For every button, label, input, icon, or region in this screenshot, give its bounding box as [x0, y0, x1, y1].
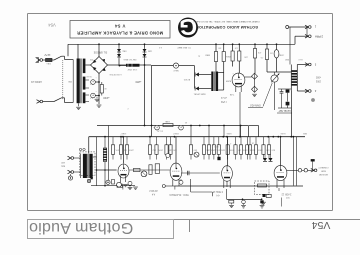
wire jack top	[254, 58, 256, 73]
node anode bus x278.3	[277, 136, 279, 138]
resistor R37	[255, 137, 257, 145]
ground chassis filter	[97, 104, 102, 106]
wire jack link	[254, 79, 256, 87]
switch S1 link	[62, 60, 64, 100]
ground circle input	[70, 174, 72, 176]
wire input lo	[74, 171, 81, 173]
ground glyph near +150	[96, 97, 98, 99]
node bus x99	[98, 43, 100, 45]
svg-text:2 AOK 12: 2 AOK 12	[281, 193, 292, 196]
svg-text:SCR: SCR	[214, 145, 219, 147]
terminal J2 line out	[305, 34, 308, 36]
wire bridge top to bus	[98, 44, 100, 56]
node anode bus x150	[149, 136, 151, 138]
svg-text:LINE: LINE	[165, 120, 170, 122]
svg-text:+: +	[156, 126, 158, 130]
node output tap	[286, 26, 289, 29]
svg-text:BY100: BY100	[183, 78, 190, 80]
wire output tap line	[289, 26, 308, 28]
svg-text:220K: 220K	[210, 148, 215, 150]
wire cathode ground rail	[227, 199, 262, 201]
ground circle under transformer	[87, 179, 90, 182]
wire input sec top	[93, 156, 97, 158]
svg-text:SIL. BRIDGE: SIL. BRIDGE	[93, 51, 107, 53]
node grid feed	[96, 169, 98, 171]
svg-text:220K: 220K	[128, 148, 133, 150]
title box	[70, 21, 170, 39]
svg-text:GAIN ADJ: GAIN ADJ	[250, 104, 260, 107]
wire grid feed V1	[97, 169, 117, 171]
svg-text:A3904 24: A3904 24	[31, 80, 42, 83]
resistor R38	[263, 137, 265, 145]
node anode bus x280.5	[280, 136, 282, 138]
svg-text:TRIO · PLAYBACK: TRIO · PLAYBACK	[169, 193, 189, 196]
wire T3 out top	[297, 64, 308, 66]
wire B+ top bus	[68, 43, 295, 45]
svg-text:PRI: PRI	[68, 80, 72, 82]
node anode bus x174.5	[174, 136, 176, 138]
node anode bus x121	[120, 136, 122, 138]
node bus x223.7	[223, 43, 225, 45]
wire V4 anode	[280, 137, 282, 166]
capacitor C8 blob	[263, 194, 266, 197]
wire diode join	[194, 66, 196, 89]
wire screen rail	[97, 125, 248, 127]
wire vert x296	[296, 137, 298, 186]
svg-text:RED: RED	[284, 58, 289, 60]
node screen rail x199.8	[199, 125, 201, 127]
wire T3 top tap riser	[289, 27, 291, 65]
capacitor C5	[187, 171, 189, 175]
wire vert x151	[151, 66, 153, 137]
svg-text:GROUND: GROUND	[318, 173, 328, 175]
svg-text:4x: 4x	[198, 54, 200, 56]
wire lamp row left	[151, 65, 173, 67]
resistor R45	[266, 194, 271, 197]
resistor R20	[112, 137, 114, 145]
wire bus stub left	[67, 44, 69, 56]
wire mains N	[43, 101, 55, 103]
svg-text:V 54: V 54	[114, 23, 125, 28]
resistor R26	[170, 137, 172, 145]
svg-text:LOW RIPPLE: LOW RIPPLE	[109, 73, 122, 75]
ground chassis rail end	[133, 186, 138, 188]
ground chassis output stage	[261, 201, 266, 203]
wire C15 drop	[312, 162, 314, 171]
terminal input hi	[68, 156, 71, 158]
wire bridge right	[108, 64, 127, 66]
svg-text:RES: RES	[225, 55, 230, 57]
resistor R35	[246, 137, 248, 145]
node anode bus x293.3	[292, 136, 294, 138]
svg-text:50+50: 50+50	[86, 75, 91, 77]
transformer T4 input primary	[80, 154, 82, 179]
node screen rail x224	[223, 125, 225, 127]
resistor R44 bias	[229, 200, 234, 203]
resistor R8	[265, 49, 268, 60]
sheet border frame left	[27, 14, 29, 211]
wire R2 to node	[140, 64, 152, 66]
resistor R34	[240, 137, 242, 145]
tube V3 pins	[223, 180, 225, 188]
lamp NE-2	[173, 63, 178, 68]
title strip divider	[189, 220, 191, 233]
svg-text:NE-2: NE-2	[173, 69, 179, 71]
switch S1b	[54, 98, 62, 102]
svg-text:0 HOE 18: 0 HOE 18	[212, 190, 223, 192]
svg-text:NFB: NFB	[302, 132, 307, 134]
node anode bus x105	[104, 136, 106, 138]
svg-text:22 SR 2: 22 SR 2	[149, 189, 158, 191]
tube V1	[118, 164, 129, 178]
svg-text:G: G	[179, 14, 197, 40]
capacitor C14 under V2	[179, 180, 183, 184]
zener D2	[144, 48, 146, 59]
jack out A	[298, 169, 301, 172]
svg-text:1W: 1W	[235, 46, 238, 48]
svg-text:V54: V54	[48, 23, 56, 28]
wire heater drop b	[174, 186, 176, 190]
capacitor C12 blob	[286, 102, 290, 106]
node bus x144.5	[144, 43, 146, 45]
svg-text:+8 +9: +8 +9	[220, 96, 227, 98]
lamp stabiliser	[274, 50, 279, 58]
trimmer screw a	[79, 148, 81, 150]
trimmer P2	[117, 182, 122, 187]
transformer T2 winding left	[211, 72, 213, 92]
transformer T1 secondary heater	[83, 92, 86, 103]
svg-text:+: +	[180, 126, 182, 130]
capacitor C2 filter	[91, 93, 96, 98]
bridge rectifier BR1	[91, 57, 108, 74]
wire screen rail jog	[248, 126, 250, 137]
svg-text:+150: +150	[103, 96, 110, 100]
wire T1 secondary to bridge	[85, 64, 90, 66]
transformer T2 winding right	[216, 72, 218, 92]
svg-text:12AX7: 12AX7	[172, 132, 179, 135]
svg-text:MONO DRIVE & PLAYBACK AMPLIFIE: MONO DRIVE & PLAYBACK AMPLIFIER	[77, 31, 163, 36]
resistor R2 wirewound	[126, 64, 140, 67]
logo Gotham disc	[178, 18, 198, 38]
node zener rail	[119, 65, 121, 67]
wire v2 to v3	[181, 172, 220, 174]
resistor R32	[227, 137, 229, 145]
resistor R3	[214, 52, 217, 62]
svg-text:SIDE: SIDE	[320, 169, 325, 171]
wire T2 right top	[218, 72, 224, 74]
svg-text:470K: 470K	[242, 148, 247, 150]
node rail a	[242, 198, 244, 200]
tube V1 pins	[120, 176, 122, 182]
wire V3 anode	[227, 137, 229, 167]
wire V5 cathode down	[239, 92, 241, 137]
title strip rule	[28, 219, 360, 221]
capacitor C9 under V1	[128, 181, 132, 185]
ground circle x108	[106, 180, 110, 184]
wire zener rail	[119, 65, 126, 67]
wire RC top	[278, 88, 291, 90]
capacitor C10	[281, 89, 283, 91]
jack out B	[304, 169, 307, 172]
diode D4	[196, 87, 199, 91]
terminal J4	[305, 89, 308, 91]
shield box input transformer	[80, 152, 95, 176]
capacitor C6 bias	[242, 200, 246, 204]
terminal mains N	[37, 100, 40, 102]
resistor R23	[149, 137, 151, 145]
wire pot wiper down	[274, 82, 276, 110]
resistor R40	[134, 168, 141, 171]
terminal mains L	[37, 58, 40, 60]
transformer T1 chassis stem	[78, 103, 80, 106]
ground chassis jacks	[252, 93, 257, 95]
resistor R42	[155, 164, 159, 174]
capacitor C7 blob	[260, 200, 263, 203]
capacitor C4	[179, 125, 184, 130]
svg-text:BLU: BLU	[298, 58, 302, 60]
capacitor C11 blob	[286, 90, 290, 93]
diode bridge M1	[252, 73, 258, 79]
wire anode bus drop left	[88, 137, 90, 154]
capacitor C3	[155, 125, 160, 130]
title block box Gotham Audio	[28, 220, 174, 239]
svg-text:BIAS LEVEL: BIAS LEVEL	[193, 93, 206, 96]
resistor R24	[156, 137, 158, 145]
node bus x276.5	[276, 43, 278, 45]
node screen rail x240.6	[240, 125, 242, 127]
resistor R27	[190, 137, 192, 145]
wire terminal jog	[306, 27, 308, 36]
capacitor C15 blob	[311, 159, 315, 161]
wire input return vert	[96, 137, 98, 186]
wire bridge bottom	[98, 74, 100, 105]
transformer T3 left rail	[290, 65, 292, 92]
wire screen stub x209	[208, 126, 210, 137]
node anode bus x240	[239, 136, 241, 138]
svg-text:PRI: PRI	[89, 58, 93, 60]
svg-text:12AX7: 12AX7	[120, 132, 127, 135]
node screen rail x191	[190, 125, 192, 127]
node anode bus x223.3	[222, 136, 224, 138]
zener D1	[118, 48, 120, 59]
wire RC bottom	[278, 107, 291, 109]
diode bridge M2	[252, 86, 258, 92]
transformer T4 core	[87, 154, 89, 178]
resistor R46 under V1	[112, 180, 115, 185]
resistor R36	[249, 137, 251, 145]
wire screen stub x191	[190, 126, 192, 137]
capacitor C1 filter	[91, 80, 96, 85]
node anode bus x268.3	[267, 136, 269, 138]
trimmer P3	[141, 171, 147, 177]
resistor R25	[166, 137, 168, 145]
wire dropper down	[144, 65, 146, 126]
sheet border frame bottom	[28, 210, 333, 212]
wire V1 anode	[123, 137, 125, 164]
resistor R33	[235, 137, 237, 145]
transformer T4 secondary	[89, 154, 92, 178]
transformer T1 tap b	[85, 87, 89, 89]
trimmer P5	[166, 154, 170, 158]
node rail b	[261, 198, 263, 200]
wire T3 out bottom	[297, 90, 308, 92]
svg-text:V54: V54	[312, 219, 331, 231]
terminal J1 line out	[305, 25, 308, 27]
svg-text:100K: 100K	[158, 148, 163, 150]
tube V5 pins	[235, 85, 237, 92]
wire V4 to jacks	[287, 169, 298, 171]
transformer T1 tap a	[85, 79, 89, 81]
node screen rail x209	[208, 125, 210, 127]
capacitor C13 blob	[217, 157, 220, 160]
resistor R30	[213, 137, 215, 145]
resistor R39	[268, 137, 270, 145]
wire V3 cathode	[226, 181, 228, 187]
tube V5	[232, 73, 245, 87]
wire cathode rail	[174, 185, 303, 187]
terminal J3	[305, 63, 308, 65]
wire input hi	[74, 157, 81, 159]
node bus x255	[254, 43, 256, 45]
wire lamp row right	[179, 65, 195, 67]
node reg	[144, 64, 146, 66]
node screen rail x144.5	[144, 125, 146, 127]
wire jacks to terminal	[308, 169, 314, 171]
sheet border frame top	[28, 13, 333, 15]
svg-text:CONNECT: CONNECT	[318, 166, 329, 168]
transformer T1 secondary mid	[83, 77, 86, 90]
svg-text:1.5K 10W: 1.5K 10W	[127, 68, 138, 70]
svg-text:117V: 117V	[44, 53, 50, 57]
resistor R31	[218, 137, 220, 145]
diode D3	[196, 73, 199, 77]
tube V4 pins	[276, 180, 278, 188]
wire vert x293	[293, 137, 295, 186]
node anode bus x291.3	[290, 136, 292, 138]
svg-text:100K: 100K	[229, 148, 234, 150]
svg-text:2 WEST 46 STREET, NEW YORK, N.: 2 WEST 46 STREET, NEW YORK, N.Y. 10036 ·…	[193, 20, 260, 22]
node filter a	[98, 81, 100, 83]
node filter b	[98, 95, 100, 97]
svg-text:Gotham Audio: Gotham Audio	[29, 219, 133, 236]
feedback box	[255, 181, 270, 195]
transformer T2 core	[213, 72, 215, 92]
resistor R43 feedback	[258, 184, 267, 187]
svg-text:J003: J003	[315, 80, 321, 82]
wire v1 to v2	[129, 169, 170, 171]
svg-text:1M: 1M	[270, 51, 273, 53]
wire screen stub x224	[223, 126, 225, 137]
node anode bus x123	[122, 136, 124, 138]
node bus x267	[266, 43, 268, 45]
wire heater drop a	[122, 186, 124, 190]
wire input ground rail	[91, 185, 135, 187]
resistor R21	[120, 137, 122, 145]
svg-text:GOTHAM AUDIO CORPORATION: GOTHAM AUDIO CORPORATION	[196, 25, 258, 29]
wire switch to primary top	[62, 55, 65, 57]
wire rail riser	[226, 189, 228, 199]
terminal input lo	[68, 170, 71, 172]
node anode bus x227	[226, 136, 228, 138]
wire choke bottom	[104, 162, 106, 186]
resistor R28	[203, 137, 205, 145]
transformer T1 tap c	[85, 94, 89, 96]
svg-text:150B2: 150B2	[279, 53, 284, 55]
node bus x239.3	[238, 43, 240, 45]
plug prongs	[36, 57, 39, 59]
transformer T1 secondary HT	[83, 59, 86, 74]
wire jacks link	[302, 169, 304, 171]
svg-text:1M: 1M	[169, 148, 172, 150]
diode D5	[263, 158, 267, 161]
node screen rail x151.5	[151, 125, 153, 127]
svg-text:2 PRA: 2 PRA	[315, 34, 323, 38]
tube V2 pins	[172, 180, 174, 187]
svg-text:+280: +280	[135, 80, 142, 84]
resistor R4	[231, 51, 234, 61]
wire V5 to jacks	[245, 76, 252, 78]
wire NFB	[291, 91, 293, 137]
wire anode bus	[89, 136, 305, 138]
resistor R7	[253, 49, 256, 59]
svg-text:+: +	[92, 80, 94, 84]
wire T2 right bottom	[218, 89, 224, 91]
svg-text:+: +	[92, 94, 94, 98]
wire T1 riser	[77, 44, 79, 58]
svg-text:40+40: 40+40	[156, 129, 163, 131]
svg-text:+500: +500	[315, 76, 321, 78]
wire V2 anode	[175, 137, 177, 163]
node anode bus x273.3	[272, 136, 274, 138]
trimmer P4	[194, 152, 199, 157]
wire pot feed	[267, 71, 291, 73]
ground mark J4	[311, 98, 315, 102]
resistor R22	[126, 137, 128, 145]
terminal J5	[311, 169, 314, 171]
sheet border frame right	[332, 14, 334, 211]
ground chassis under T1	[76, 106, 81, 108]
fuse F1	[43, 59, 46, 61]
resistor R41	[149, 165, 152, 175]
resistor R29	[208, 137, 210, 145]
wire screen stub x240.6	[240, 126, 242, 137]
resistor R3b	[222, 52, 225, 62]
transformer T1 primary winding	[77, 59, 80, 104]
potentiometer P1	[271, 75, 278, 82]
svg-text:28V DC REG: 28V DC REG	[123, 58, 136, 60]
ground chassis V1	[123, 183, 128, 185]
diode D6	[269, 158, 273, 161]
transformer T1 tap d	[85, 101, 89, 103]
wire heater drop d	[278, 188, 280, 191]
wire bus riser to output terminal	[294, 36, 296, 44]
resistor R47 on ground rail	[117, 184, 123, 187]
capacitor blob input	[91, 177, 93, 179]
wire stub level	[281, 198, 283, 207]
resistor R6	[238, 51, 241, 61]
trimmer screw b	[83, 148, 85, 150]
wire choke top	[104, 137, 106, 148]
transformer T1 core	[80, 59, 82, 104]
transformer T3 winding stack	[292, 70, 298, 72]
svg-text:TO REC AMP: TO REC AMP	[177, 46, 191, 49]
transformer T3 right rail	[296, 65, 298, 92]
tube V2	[170, 163, 182, 180]
node bus x232.6	[232, 43, 234, 45]
svg-text:D.B.L: D.B.L	[46, 62, 51, 64]
tube V4	[274, 165, 287, 180]
resistor R9	[163, 124, 173, 127]
